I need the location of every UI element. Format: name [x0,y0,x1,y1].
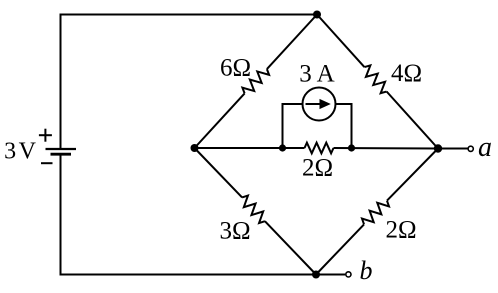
wire bottom rail [61,154,317,274]
wire to terminal b [316,274,345,276]
svg-text:3Ω: 3Ω [219,218,250,245]
wire diagonal left-node to 6ohm [195,93,245,148]
resistor 2ohm lower right [360,197,391,228]
svg-text:2Ω: 2Ω [302,155,333,182]
svg-text:3 A: 3 A [299,61,334,88]
wire bottom node to 2ohm lower right [316,224,364,274]
svg-text:b: b [360,256,373,285]
current source I1 (3 A) circle [303,88,336,121]
arrow of current source [306,99,331,109]
svg-text:a: a [478,132,492,163]
junction dot top node [313,11,321,19]
wire middle branch right segment [334,147,439,150]
minus sign of battery [41,162,53,164]
junction dot middle-right [348,144,355,151]
battery V1 (3 V source) plates [46,149,77,154]
junction dot left node [191,144,199,152]
svg-text:3 V: 3 V [4,139,37,165]
svg-text:4Ω: 4Ω [391,60,422,87]
wire 2ohm lower right to right node [387,149,438,201]
resistor 4ohm [360,63,390,95]
wire 6ohm to top node [267,15,317,70]
resistor 6ohm [241,65,271,97]
wire current-source branch (up, across, down) [283,104,352,148]
plus sign of battery [39,129,52,142]
junction dot bottom node [312,271,320,279]
svg-text:6Ω: 6Ω [220,55,251,82]
wire middle branch left segment [195,147,305,149]
svg-text:2Ω: 2Ω [385,217,416,244]
wire left node to 3ohm [195,148,243,197]
wire top node to 4ohm [317,15,364,68]
junction dot right node [434,144,442,152]
junction dot middle-left [279,144,286,151]
resistor 3ohm [238,194,269,225]
terminal a open circle [468,146,473,151]
wire top rail [61,15,318,150]
wire 4ohm to right node [387,92,438,149]
terminal b open circle [346,272,351,277]
wire to terminal a [438,148,468,150]
resistor 2ohm middle [305,143,334,154]
wire 3ohm to bottom node [265,221,316,274]
